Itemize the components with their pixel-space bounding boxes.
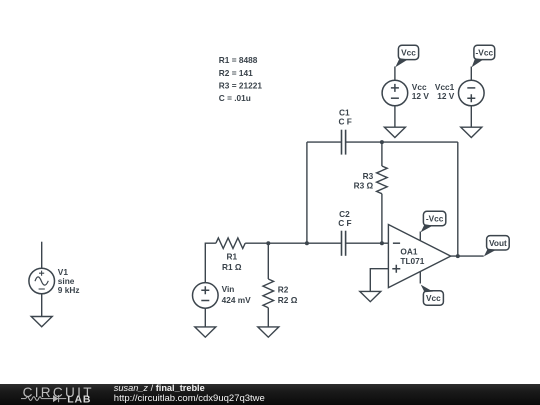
svg-text:C F: C F <box>338 218 351 228</box>
svg-text:R2 Ω: R2 Ω <box>278 295 298 305</box>
svg-text:C F: C F <box>339 117 352 127</box>
svg-text:http://circuitlab.com/cdx9uq27: http://circuitlab.com/cdx9uq27q3twe <box>114 393 265 404</box>
svg-text:R3 Ω: R3 Ω <box>354 181 374 191</box>
svg-text:Vin: Vin <box>222 284 235 294</box>
svg-text:12 V: 12 V <box>437 91 455 101</box>
svg-text:R3: R3 <box>363 171 374 181</box>
svg-text:C = .01u: C = .01u <box>219 93 251 103</box>
svg-text:TL071: TL071 <box>400 256 424 266</box>
svg-text:OA1: OA1 <box>400 247 417 257</box>
svg-text:-Vcc: -Vcc <box>426 214 444 224</box>
svg-text:Vcc: Vcc <box>426 293 441 303</box>
svg-text:LAB: LAB <box>67 394 91 405</box>
svg-text:R2: R2 <box>278 285 289 295</box>
svg-text:12 V: 12 V <box>412 91 430 101</box>
svg-text:9 kHz: 9 kHz <box>58 285 80 295</box>
svg-text:424 mV: 424 mV <box>222 295 252 305</box>
svg-text:Vcc: Vcc <box>401 47 416 57</box>
svg-text:R2 = 141: R2 = 141 <box>219 68 253 78</box>
svg-text:R1 = 8488: R1 = 8488 <box>219 55 258 65</box>
svg-text:-Vcc: -Vcc <box>476 47 494 57</box>
svg-text:Vout: Vout <box>489 238 507 248</box>
svg-text:R1 Ω: R1 Ω <box>222 262 242 272</box>
svg-text:R1: R1 <box>226 252 237 262</box>
svg-text:R3 = 21221: R3 = 21221 <box>219 80 263 90</box>
svg-text:susan_z / final_treble: susan_z / final_treble <box>114 383 205 393</box>
